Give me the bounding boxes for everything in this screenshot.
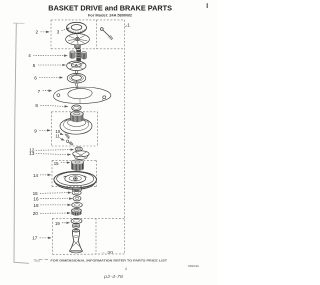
wire label14 arrow [40, 174, 51, 176]
svg-text:7: 7 [38, 89, 41, 94]
svg-text:8: 8 [35, 103, 38, 108]
tiny mark top right [207, 3, 208, 8]
wire label10 arrow [60, 134, 63, 135]
faint smudge left of caption [34, 259, 49, 261]
svg-text:19: 19 [55, 221, 60, 226]
svg-text:3: 3 [57, 29, 60, 34]
wire label8 arrow [40, 105, 67, 106]
spacer stack part 4 [70, 48, 87, 62]
svg-text:For Model: 24A 5800W2: For Model: 24A 5800W2 [88, 13, 132, 17]
svg-text:FOR DIMENSIONAL INFORMATION RE: FOR DIMENSIONAL INFORMATION REFER TO PAR… [51, 259, 168, 263]
svg-text:13: 13 [29, 151, 35, 156]
washer part 18 [72, 202, 83, 207]
wire label18 arrow [40, 204, 70, 206]
svg-text:17: 17 [32, 236, 38, 241]
svg-text:4: 4 [125, 267, 127, 271]
dashed box top-left (clutch assembly) [51, 20, 125, 49]
o-ring part 12 [75, 147, 82, 151]
svg-text:4: 4 [28, 53, 31, 58]
hub under pulley [73, 187, 82, 191]
o-ring part 8 [72, 105, 81, 111]
svg-text:6: 6 [34, 75, 37, 80]
svg-text:15: 15 [33, 191, 39, 196]
page edge line left [13, 22, 25, 24]
bearing part 6 [67, 73, 86, 86]
hub part 15 [71, 160, 83, 171]
wire label15b arrow [40, 192, 71, 195]
wire label15 arrow [61, 162, 70, 164]
wire label6 arrow [39, 77, 63, 79]
svg-text:1: 1 [127, 23, 130, 28]
svg-text:14: 14 [33, 173, 39, 178]
retainer plate part 5 [67, 61, 86, 74]
wire label17 arrow [40, 237, 52, 239]
svg-text:p2-4-78: p2-4-78 [103, 274, 124, 279]
wire label9 arrow [39, 129, 50, 131]
clutch cap part 2 [66, 34, 90, 49]
ring stack part 19 [71, 218, 82, 228]
wire label2 arrow [41, 31, 50, 33]
bearing part 20 [71, 209, 81, 217]
screw part 1 (diagonal) [100, 28, 113, 40]
svg-text:18: 18 [33, 203, 39, 208]
wire label12 arrow [36, 149, 74, 152]
svg-text:15: 15 [54, 161, 59, 166]
washer part 15b [72, 190, 81, 195]
screw part 11 [66, 140, 73, 145]
seal ring part 3 [67, 22, 87, 33]
svg-text:16: 16 [33, 197, 39, 202]
long right dashed line [124, 20, 126, 254]
wire label5 arrow [38, 64, 66, 66]
cone washer part 13 [73, 151, 89, 160]
spin pulley part 9 [60, 111, 92, 134]
spring part 10 [65, 134, 70, 139]
wire label20 arrow [40, 212, 70, 214]
gasket part 7 [53, 86, 111, 104]
svg-text:11: 11 [55, 134, 60, 139]
ring part 16 [73, 196, 81, 201]
dashed box 9 (spin pulley assembly) [52, 112, 98, 146]
wire label4 arrow [33, 54, 67, 56]
wire label7 arrow [43, 90, 52, 92]
dashed box 17 (bottom, shaft kit) [53, 218, 125, 254]
dashed box 15 (pulley assembly) [52, 160, 97, 186]
svg-text:→ 30: → 30 [101, 250, 114, 254]
svg-text:BASKET DRIVE and BRAKE PARTS: BASKET DRIVE and BRAKE PARTS [48, 3, 172, 12]
svg-text:2: 2 [36, 30, 39, 35]
svg-text:98204b: 98204b [188, 264, 199, 268]
svg-text:5: 5 [33, 63, 36, 68]
svg-text:9: 9 [34, 128, 37, 133]
wire label1 dash [125, 25, 127, 28]
wire label19 arrow [62, 222, 70, 224]
wire label3 arrow [62, 28, 70, 31]
wire label13 arrow [36, 154, 71, 155]
drive pulley part 14 [54, 171, 97, 189]
wire label16 arrow [40, 198, 72, 200]
svg-text:20: 20 [33, 211, 39, 216]
shaft part 17 [69, 229, 82, 253]
wire label11 arrow [60, 138, 64, 140]
